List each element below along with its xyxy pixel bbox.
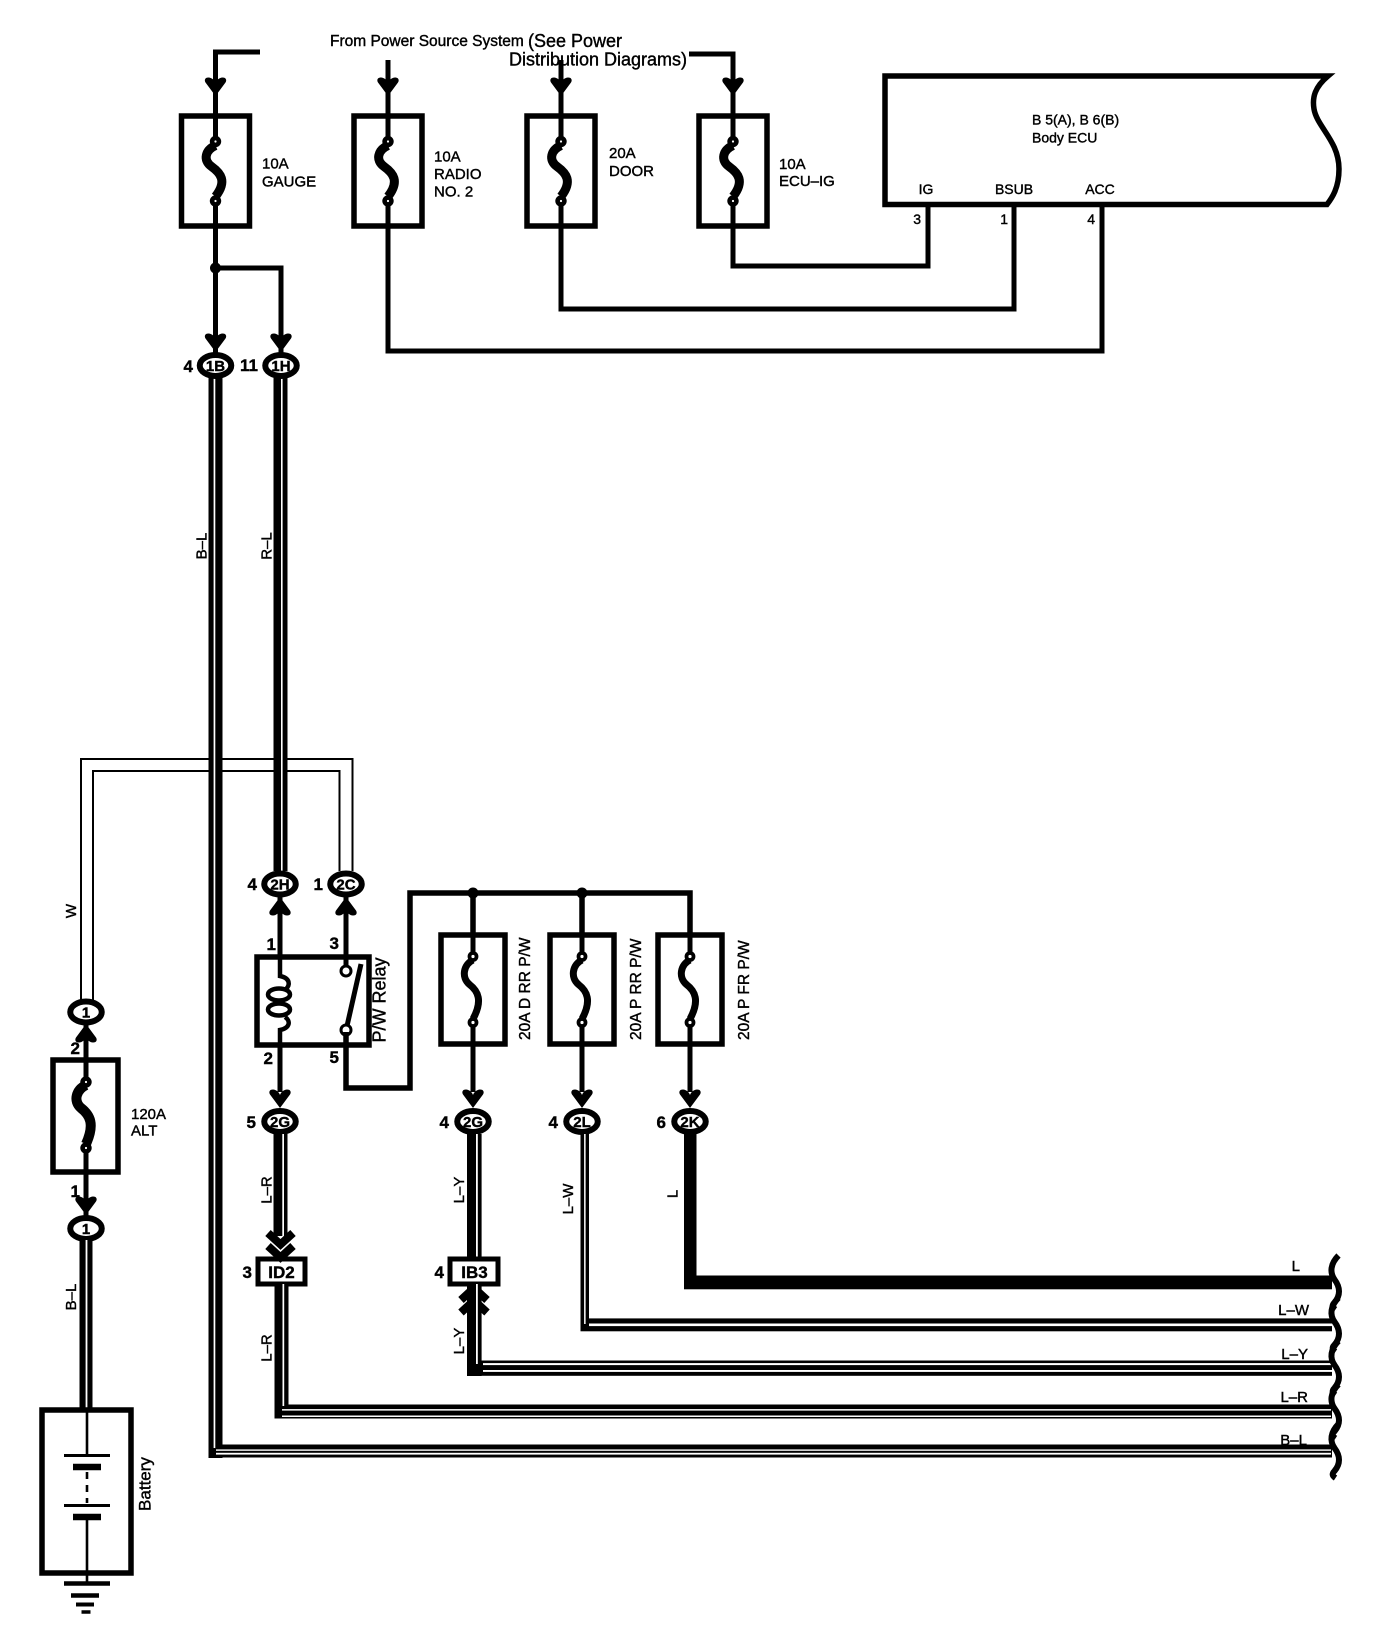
arrow feed ECU-IG <box>722 78 743 97</box>
svg-text:4: 4 <box>549 1113 559 1132</box>
junction dot <box>210 263 221 274</box>
svg-text:20A P FR P/W: 20A P FR P/W <box>736 940 753 1040</box>
svg-text:2G: 2G <box>463 1114 483 1131</box>
wire L: 2K down and right to edge (solid thick) <box>684 1134 1332 1289</box>
thin wire W: ALT to 2C (inner line) <box>93 771 340 1001</box>
svg-text:5: 5 <box>247 1113 256 1132</box>
wire R-L thick: 1H down to 2H <box>274 378 288 871</box>
svg-text:ECU–IG: ECU–IG <box>779 173 835 190</box>
svg-text:3: 3 <box>913 211 921 227</box>
thin wire W: ALT to 2C (outer line) <box>81 759 353 1001</box>
wire D RR fuse to 2G <box>471 1044 476 1092</box>
wire relay pin 5 to fuse bus <box>346 893 690 1088</box>
fuse 10A ECU-IG <box>699 116 835 226</box>
svg-text:DOOR: DOOR <box>609 163 654 180</box>
junction block ID2 <box>243 1259 305 1284</box>
svg-text:2H: 2H <box>270 877 289 894</box>
svg-text:B–L: B–L <box>194 533 211 560</box>
svg-text:ACC: ACC <box>1085 181 1115 197</box>
svg-text:1H: 1H <box>271 358 290 375</box>
continuation squiggle L-R <box>1331 1384 1339 1438</box>
svg-text:10A: 10A <box>779 156 806 173</box>
svg-text:11: 11 <box>240 356 258 375</box>
wire L-W: 2L down and right to edge <box>581 1134 1333 1331</box>
svg-text:4: 4 <box>184 357 194 376</box>
wire bus to P RR fuse <box>579 893 585 935</box>
svg-text:L: L <box>1292 1258 1300 1275</box>
svg-text:4: 4 <box>435 1263 445 1282</box>
svg-text:10A: 10A <box>262 156 289 173</box>
svg-text:1: 1 <box>1000 211 1008 227</box>
svg-text:L–W: L–W <box>1278 1302 1310 1319</box>
svg-text:20A: 20A <box>609 145 636 162</box>
wire 2H to relay pin 1 <box>278 897 283 957</box>
fuse 20A DOOR <box>527 116 654 226</box>
connector 2C <box>314 874 362 895</box>
svg-text:IB3: IB3 <box>461 1263 487 1282</box>
relay switch contact <box>347 964 361 1026</box>
fuse 20A P FR P/W <box>658 935 753 1044</box>
connector 1 (ALT top) <box>70 1002 102 1023</box>
wire DOOR fuse to BSUB pin <box>561 203 1014 309</box>
wire L-R: ID2 down and right to edge <box>275 1284 1333 1419</box>
svg-text:R–L: R–L <box>259 532 276 560</box>
wire GAUGE fuse to junction <box>213 226 218 353</box>
connector 1H <box>240 355 297 376</box>
wire B-L: connector to battery <box>80 1240 93 1410</box>
svg-text:2G: 2G <box>270 1114 290 1131</box>
fuse 10A RADIO NO. 2 <box>354 116 482 226</box>
fusible link 120A ALT <box>53 1060 166 1172</box>
fuse 10A GAUGE <box>182 116 317 226</box>
svg-text:BSUB: BSUB <box>995 181 1033 197</box>
svg-text:Battery: Battery <box>136 1457 155 1511</box>
svg-text:2K: 2K <box>680 1114 699 1131</box>
svg-text:B–L: B–L <box>63 1284 80 1311</box>
connector 1B <box>184 355 232 376</box>
relay P/W Relay <box>257 957 390 1045</box>
svg-text:1: 1 <box>82 1221 90 1238</box>
connector 2G (relay) <box>247 1111 296 1132</box>
junction dot bus/P RR <box>577 888 588 899</box>
arrow into connector 1H <box>270 334 291 353</box>
svg-text:IG: IG <box>919 181 934 197</box>
svg-text:ALT: ALT <box>131 1123 157 1140</box>
wire ECU-IG fuse to IG pin <box>733 203 928 266</box>
junction dot bus/D RR <box>468 888 479 899</box>
svg-text:1: 1 <box>267 935 276 954</box>
svg-text:1B: 1B <box>206 358 225 375</box>
wire bus to D RR fuse <box>470 893 476 935</box>
svg-text:Body ECU: Body ECU <box>1032 130 1097 146</box>
arrow into connector 2G (D RR) <box>462 1090 483 1109</box>
svg-text:RADIO: RADIO <box>434 166 482 183</box>
svg-text:ID2: ID2 <box>268 1263 294 1282</box>
svg-text:2C: 2C <box>336 877 355 894</box>
arrow into connector 2G (relay) <box>269 1090 290 1109</box>
svg-text:20A D RR P/W: 20A D RR P/W <box>517 937 534 1040</box>
connector 2H <box>248 874 296 895</box>
connector 2G (D RR) <box>440 1111 489 1132</box>
battery <box>42 1410 155 1583</box>
arrow into connector 2L <box>571 1090 592 1109</box>
svg-text:L: L <box>665 1190 682 1198</box>
continuation squiggle L-W <box>1331 1298 1339 1352</box>
svg-text:L–R: L–R <box>259 1176 276 1204</box>
continuation squiggle B-L <box>1331 1424 1339 1478</box>
svg-text:Distribution Diagrams): Distribution Diagrams) <box>509 50 687 70</box>
svg-text:10A: 10A <box>434 149 461 166</box>
ECU U1: Body ECU box <box>885 76 1339 205</box>
arrow into battery-side connector 1 <box>75 1197 96 1216</box>
svg-text:L–W: L–W <box>560 1183 577 1215</box>
wire feed to fuse DOOR <box>559 60 564 116</box>
svg-text:120A: 120A <box>131 1106 166 1123</box>
wire connector to ALT pin 2 <box>84 1024 89 1060</box>
connector 2L <box>549 1111 598 1132</box>
relay coil <box>280 957 289 990</box>
fuse 20A P RR P/W <box>550 935 645 1044</box>
svg-text:4: 4 <box>1087 211 1095 227</box>
wire L-Y: IB3 down and right to edge <box>467 1284 1332 1376</box>
svg-text:From Power Source System: From Power Source System <box>330 33 524 50</box>
svg-text:L–R: L–R <box>1280 1389 1308 1406</box>
svg-text:2: 2 <box>264 1049 273 1068</box>
wire L-Y: 2G to IB3 <box>467 1134 482 1259</box>
connector 2K <box>657 1111 706 1132</box>
svg-text:P/W Relay: P/W Relay <box>370 957 390 1042</box>
wire P RR fuse to 2L <box>580 1044 585 1092</box>
svg-text:L–Y: L–Y <box>451 1328 468 1355</box>
svg-text:20A P RR P/W: 20A P RR P/W <box>628 938 645 1040</box>
connector 1 (battery side) <box>70 1218 102 1239</box>
double chevron into IB3 <box>461 1288 487 1300</box>
double chevron into ID2 <box>268 1233 293 1245</box>
svg-text:L–R: L–R <box>259 1334 276 1362</box>
arrow feed RADIO <box>377 78 398 97</box>
wire 2C to relay pin 3 <box>344 897 349 966</box>
svg-text:4: 4 <box>440 1113 450 1132</box>
continuation squiggle L <box>1331 1256 1339 1310</box>
fuse 20A D RR P/W <box>441 935 534 1044</box>
wire relay pin 2 to 2G <box>278 1045 283 1092</box>
arrow into connector 2C <box>335 897 356 916</box>
wire RADIO fuse to ACC pin <box>388 203 1102 351</box>
arrow into connector 2H <box>269 897 290 916</box>
svg-text:5: 5 <box>330 1048 339 1067</box>
svg-text:3: 3 <box>243 1263 252 1282</box>
wire ALT pin 1 to connector <box>84 1172 89 1216</box>
svg-text:3: 3 <box>330 934 339 953</box>
arrow into connector 2K <box>679 1090 700 1109</box>
svg-text:W: W <box>63 903 80 918</box>
svg-text:B–L: B–L <box>1280 1432 1307 1449</box>
wire feed to fuse GAUGE <box>216 52 261 116</box>
svg-text:1: 1 <box>314 875 323 894</box>
svg-text:NO. 2: NO. 2 <box>434 184 473 201</box>
junction block IB3 <box>435 1259 498 1284</box>
arrow feed GAUGE <box>205 78 226 97</box>
svg-text:B 5(A), B 6(B): B 5(A), B 6(B) <box>1032 112 1119 128</box>
svg-text:L–Y: L–Y <box>1281 1346 1308 1363</box>
wire L-R: 2G to ID2 <box>274 1134 288 1236</box>
arrow into connector 1 from ALT <box>75 1024 96 1043</box>
svg-text:L–Y: L–Y <box>451 1177 468 1204</box>
wire feed to fuse RADIO <box>386 60 391 116</box>
wire feed to fuse ECU-IG <box>689 54 733 116</box>
svg-text:1: 1 <box>82 1005 90 1022</box>
svg-text:GAUGE: GAUGE <box>262 174 316 191</box>
wire junction to 1H <box>216 268 282 353</box>
wire P FR fuse to 2K <box>688 1044 693 1092</box>
svg-text:2: 2 <box>71 1039 80 1058</box>
svg-text:(See Power: (See Power <box>528 31 622 51</box>
arrow into connector 1B <box>205 334 226 353</box>
continuation squiggle L-Y <box>1331 1341 1339 1395</box>
svg-text:6: 6 <box>657 1113 666 1132</box>
svg-text:2L: 2L <box>573 1114 591 1131</box>
wire B-L thick: 1B down and right to edge <box>209 378 1333 1458</box>
arrow feed DOOR <box>550 78 571 97</box>
ground <box>64 1584 110 1613</box>
svg-text:4: 4 <box>248 875 258 894</box>
